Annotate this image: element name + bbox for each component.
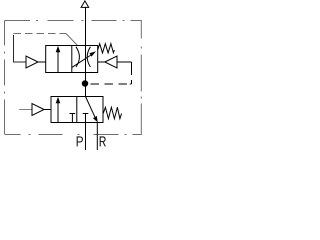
V1 right box flow line <box>85 46 87 73</box>
wire from arrow down to top valve <box>85 7 87 45</box>
port P line <box>85 123 87 151</box>
valve V1 divider <box>71 46 73 73</box>
enclosure frame left <box>4 21 6 135</box>
enclosure frame bottom <box>5 134 142 136</box>
V1 left box flow arrow (up) <box>57 50 59 72</box>
dashed pilot horizontal from junction <box>91 83 132 85</box>
spring (top valve, right) <box>98 44 115 53</box>
throttle arc right <box>87 47 90 67</box>
label R <box>100 137 105 147</box>
valve V1 body (top, two boxes) <box>46 46 98 73</box>
main wire top valve to bottom valve <box>85 72 87 97</box>
valve V2 divider <box>76 97 78 123</box>
wire triangle to corner <box>117 61 132 63</box>
pilot feed line (bottom valve, left, gray) <box>19 109 32 111</box>
wire valve to right pilot triangle <box>98 61 105 63</box>
junction node <box>82 80 89 87</box>
throttle arc left <box>76 47 79 67</box>
V2 left box flow arrow (up) <box>57 101 59 122</box>
pilot triangle (bottom valve, left, pointing right) <box>32 104 44 116</box>
exhaust arrow at top (hollow) <box>81 1 89 8</box>
enclosure frame (chain line) top <box>5 20 142 22</box>
wire to left pilot triangle <box>14 61 27 63</box>
port R line <box>96 123 98 151</box>
pilot triangle (top valve, left, pointing right) <box>26 56 38 68</box>
pilot line left vertical <box>13 35 15 63</box>
valve V2 body (bottom, two boxes) <box>51 97 103 123</box>
pilot line (dashed) top-left horizontal <box>14 33 67 35</box>
pilot line diagonal to valve top <box>66 34 78 46</box>
V2 exhaust diagonal arrow <box>86 97 96 118</box>
wire triangle to valve <box>44 109 51 111</box>
elbow corner piece <box>130 83 132 85</box>
V2 left box blocked port T <box>70 114 76 123</box>
V2 right box blocked port T <box>83 114 89 123</box>
label P <box>77 137 82 147</box>
enclosure frame right <box>140 21 142 135</box>
throttle adjust arrow diagonal <box>72 55 92 68</box>
pilot triangle (top valve, right, pointing left) <box>105 56 117 68</box>
spring (bottom valve, right) <box>103 107 121 118</box>
dashed pilot vertical right <box>131 62 133 84</box>
wire triangle to valve <box>38 61 46 63</box>
